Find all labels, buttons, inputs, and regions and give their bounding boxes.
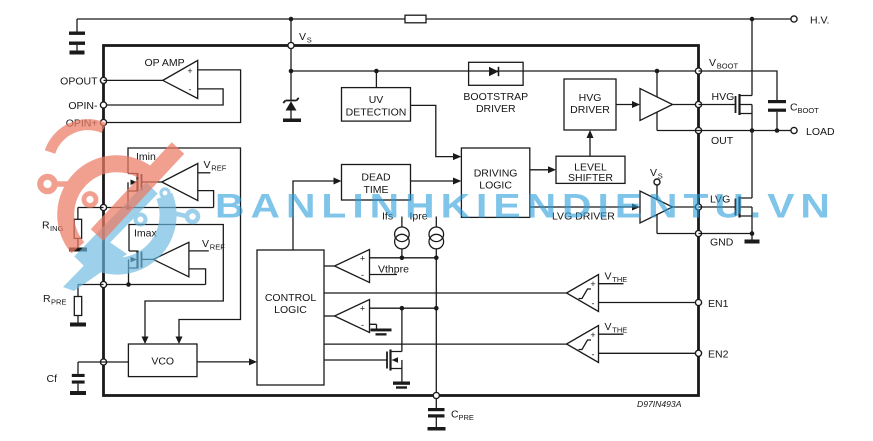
pin CF [47,359,107,385]
svg-text:DRIVING: DRIVING [474,168,518,180]
transistor Imin sense MOSFET [128,173,162,208]
arrow Imin MOSFET body [131,180,138,186]
svg-text:PRE: PRE [459,413,474,422]
wire EN2 pin line [599,352,699,354]
buffer HVG (triangle) [640,89,673,121]
capacitor CPRE [428,399,474,427]
node junction Cboot bottom [775,128,780,133]
svg-text:+: + [590,279,595,289]
wire comparator2 - input to ground [370,324,377,328]
svg-text:-: - [189,85,192,95]
svg-text:DRIVER: DRIVER [476,103,516,115]
wire EN1 pin line [599,302,699,304]
resistor R (H.V. rail) [405,15,426,23]
svg-text:OPOUT: OPOUT [60,75,98,87]
node junction HVG drain on H.V. rail [750,17,755,22]
svg-text:V: V [709,57,716,69]
current source Ipre [410,211,444,258]
arrow into VCO (Imin) [176,337,183,345]
wire Ipre line down to CPRE pin [435,258,437,396]
comparator Imax [153,242,189,276]
arrow Cpre MOSFET body [392,357,399,363]
transistor Cpre discharge MOSFET [324,350,402,382]
comparator Imin [162,164,198,201]
svg-text:DEAD: DEAD [361,172,391,184]
terminal H.V. [791,14,830,26]
transistor Imax sense MOSFET [129,251,154,285]
arrow into HVG DRIVER [587,130,594,138]
ground (RPRE) [70,323,86,327]
wire VCO output to control logic [197,361,249,363]
svg-text:V: V [202,238,209,250]
arrow into LVG buffer [632,204,640,211]
svg-text:THE: THE [612,326,627,335]
arrow into DRIVING LOGIC (dead time) [453,178,461,185]
wire CF to VCO [104,361,129,363]
block UV DETECTION [342,88,411,122]
svg-text:+: + [360,304,365,314]
block CONTROL LOGIC [257,250,324,385]
block Imax sense (wire loop to VCO) [129,225,223,338]
wire Imin comparator lower input to RING line [198,191,214,208]
block LEVEL SHIFTER [556,156,625,184]
current source Ifs [382,211,409,258]
resistor RING [74,208,103,248]
block VCO [128,344,197,377]
pin VS [288,31,312,49]
pin OPIN- [68,100,106,112]
svg-text:REF: REF [210,243,225,252]
IC package border [104,46,699,396]
wire dead time to driving logic [411,180,454,182]
ground (RING) [69,248,87,252]
wire internal Vs / bootstrap line [291,70,699,72]
watermark logo salmon shapes [40,125,178,248]
svg-text:-: - [592,350,595,360]
svg-text:DETECTION: DETECTION [346,107,407,119]
node junction Ipre [434,255,439,260]
block BOOTSTRAP DRIVER [463,62,528,115]
transistor HVG external MOSFET [699,19,753,131]
ground (comparator2 -) [371,329,392,336]
label Vthpre and - input stub [370,264,410,276]
wire HVG buffer output to HVG pin [673,104,699,106]
wire EN1 comparator output to control logic [324,292,567,294]
node junction UV tap [374,69,379,74]
arrow into VCO (Imax) [142,337,149,345]
svg-text:VCO: VCO [151,356,174,368]
svg-text:Vthpre: Vthpre [378,264,409,276]
node junction half-bridge mid [750,128,755,133]
svg-text:GND: GND [710,237,734,249]
arrow into DRIVING LOGIC (UV) [453,153,461,160]
wire UV tap [375,71,377,88]
pin GND [695,230,733,248]
svg-text:EN1: EN1 [708,298,729,310]
node junction LVG source/GND [750,231,755,236]
pin RING [42,204,107,233]
node junction Imin source on RING line [126,205,131,210]
wire Imax comparator lower input to RPRE line [189,269,206,285]
capacitor Vs bypass (top-left) [69,19,85,51]
diode (bootstrap driver) [489,67,499,76]
terminal LOAD [791,126,835,138]
pin CPRE [433,392,439,398]
svg-text:REF: REF [211,164,226,173]
wire EN2 comparator output to control logic [324,343,567,345]
pin OUT [695,127,733,147]
svg-text:HVG: HVG [579,92,602,104]
svg-text:BOOT: BOOT [717,62,739,71]
node junction Vs internal [289,69,294,74]
node junction Vs on H.V. rail [289,17,294,22]
comparator Vthpre (preheat) [335,250,370,283]
comparator EN1 (schmitt) [567,275,599,312]
capacitor CF [72,362,104,391]
svg-text:V: V [299,31,306,43]
node junction MOSFET drain [400,306,405,311]
svg-text:+: + [360,254,365,264]
svg-text:+: + [590,330,595,340]
wire driving logic to level shifter [530,169,549,171]
svg-text:D97IN493A: D97IN493A [637,399,682,409]
svg-text:-: - [361,320,364,330]
ground (Cpre MOSFET source) [393,382,410,389]
pin LVG [695,194,730,211]
svg-text:S: S [658,172,663,181]
node junction Ifs [400,255,405,260]
arrow into LEVEL SHIFTER [548,166,556,173]
pin EN2 [695,349,728,361]
terminal Vs (LVG buffer supply) [650,167,663,185]
wire LVG buffer bottom to GND line [656,215,658,234]
wire HVG driver to buffer [616,104,633,106]
svg-text:SHIFTER: SHIFTER [568,172,613,184]
node junction Ipre line [434,306,439,311]
op-amp OP AMP [145,57,198,99]
svg-text:OP AMP: OP AMP [145,57,185,69]
transistor LVG external MOSFET [699,131,753,234]
label VTHE (EN2) + stub [599,321,628,335]
pin OPOUT [60,75,106,87]
wire Vs to LVG buffer top [656,185,658,199]
ground (Vs bypass cap) [70,51,85,55]
svg-text:S: S [307,36,312,45]
svg-text:-: - [592,299,595,309]
pin HVG [695,91,734,108]
label VREF (Imax) [189,238,225,252]
arrow Imax MOSFET body [131,257,138,263]
wire op-amp - input to OPIN- [104,89,224,105]
wire op-amp + input to OPIN+ [104,70,241,123]
svg-text:OPIN-: OPIN- [68,100,98,112]
arrow into DEAD TIME [334,178,342,185]
svg-text:V: V [605,271,612,283]
wire comparator output to control logic [324,265,335,267]
wire UV detection output to driving logic [411,105,454,156]
ground (power GND) [745,240,760,244]
buffer LVG (triangle) [640,191,673,223]
wire HVG buffer bottom to OUT line [656,112,658,131]
svg-text:CONTROL: CONTROL [265,292,316,304]
wire level shifter to HVG driver [589,137,591,156]
label VREF (Imin) [198,159,227,173]
arrow into HVG buffer [632,101,640,108]
wire GND internal [657,233,699,235]
wire RPRE sense line [104,284,206,286]
pin EN1 [695,298,728,310]
svg-text:V: V [204,159,211,171]
wire RING sense line [104,207,214,209]
svg-text:HVG: HVG [712,91,735,103]
svg-text:LOGIC: LOGIC [274,304,307,316]
wire GND external [699,234,753,240]
comparator EN2 (schmitt) [567,326,599,363]
resistor RPRE [74,285,103,323]
svg-text:V: V [650,167,657,179]
ground (zener) [283,119,301,123]
svg-text:EN2: EN2 [708,349,729,361]
svg-text:R: R [42,220,50,232]
svg-text:H.V.: H.V. [810,14,829,26]
wire LVG buffer output to LVG pin [673,206,699,208]
svg-text:-: - [361,270,364,280]
block Imin sense (wire loop to VCO) [128,148,241,337]
label VTHE (EN1) + stub [599,271,628,285]
wire H.V. top rail [77,18,794,20]
wire Vboot to HVG buffer top [656,71,658,97]
wire LVG DRIVER signal [530,206,633,208]
node junction Vboot/HVG buffer [655,69,660,74]
pin VBOOT [695,57,738,74]
comparator preheat-end [335,300,370,333]
svg-text:UV: UV [369,94,384,106]
wire comparator2 + input line [370,307,437,309]
svg-text:R: R [43,293,51,305]
watermark logo blue shapes [63,188,198,291]
block HVG DRIVER [564,79,616,130]
wire comparator + input line (Ifs/Ipre) [370,257,437,259]
wire control logic to dead time [293,181,334,250]
capacitor CBOOT [768,100,819,131]
svg-text:LOAD: LOAD [806,126,835,138]
wire through bootstrap driver [469,70,523,72]
wire MOSFET drain to comparator2 + line [401,308,403,351]
block DEAD TIME [342,165,411,201]
ground (CF) [70,391,86,395]
arrow into CONTROL LOGIC (VCO) [249,358,257,365]
block DRIVING LOGIC [461,148,529,217]
svg-text:BOOT: BOOT [798,106,820,115]
svg-text:PRE: PRE [51,298,66,307]
wire Vs drop into IC [290,19,292,71]
svg-text:BANLINHKIENDIENTU.VN: BANLINHKIENDIENTU.VN [215,187,836,225]
svg-text:V: V [605,321,612,333]
wire OPOUT to op-amp output [104,79,163,81]
wire comparator2 output to control logic [324,315,335,317]
wire VBOOT external to Cboot [699,71,778,100]
svg-text:THE: THE [612,275,627,284]
svg-text:DRIVER: DRIVER [570,104,610,116]
svg-text:+: + [187,66,192,76]
node junction Imax source on RPRE line [126,282,131,287]
svg-text:OUT: OUT [711,135,734,147]
svg-text:BOOTSTRAP: BOOTSTRAP [463,91,528,103]
pin RPRE [43,281,107,306]
ground (CPRE) [428,427,446,431]
svg-text:Cf: Cf [47,373,58,385]
pin OPIN+ [66,118,107,130]
wire OUT line to LOAD [657,130,794,132]
zener diode (Vs clamp) [283,71,298,119]
